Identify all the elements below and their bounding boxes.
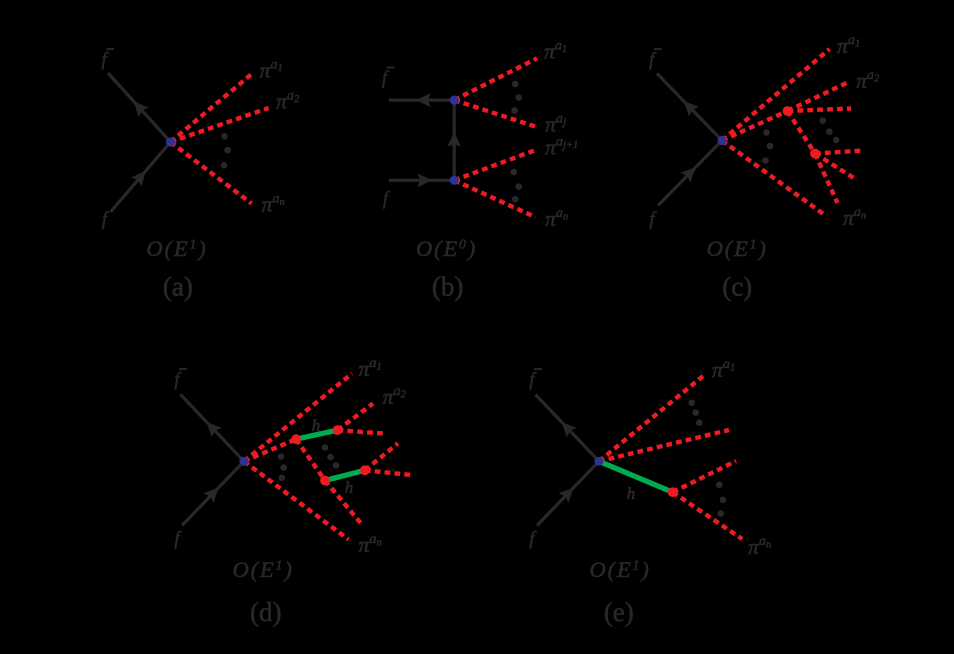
pion line pi_a2 from red vertex 1 (c): [788, 82, 849, 111]
pion line pi_a1 (a): [171, 73, 254, 143]
red vertex C (d): [320, 476, 330, 486]
red vertex A (d): [291, 434, 301, 444]
label fbar (b): [382, 68, 394, 90]
svg-text:(c): (c): [722, 272, 752, 302]
pion line pi_a2 (a): [171, 108, 269, 142]
svg-text:O(E1): O(E1): [146, 236, 207, 261]
pion line pi_an (d): [244, 461, 349, 539]
pion line pi_a1 (b): [454, 58, 537, 100]
higgs line h lower (d): [325, 470, 365, 480]
pion line pi_aj+1 (b): [454, 150, 536, 181]
label f (a): [102, 210, 110, 230]
pion line pi_an (a): [171, 142, 252, 204]
arrow on f line (d): [204, 483, 224, 503]
vertex V (c): [717, 136, 726, 145]
wire antifermion fbar (a): [108, 73, 171, 142]
internal pion to red vertex A (d): [244, 439, 296, 461]
ellipsis dots near vertex (c): [762, 129, 773, 164]
internal pion line to red vertex 1 (c): [722, 111, 788, 141]
pion line pi_a1 (e): [599, 374, 706, 461]
ellipsis dots middle (d): [322, 444, 340, 469]
pion line upright from red vertex D (d): [365, 443, 398, 470]
ellipsis dots (a): [221, 133, 231, 169]
label fbar (a): [102, 49, 114, 71]
vertex V (e): [594, 457, 603, 466]
red vertex 2 (c): [810, 149, 820, 159]
pion line down from red vertex 2 (c): [815, 154, 838, 204]
internal pion A to C (d): [296, 439, 325, 480]
arrow on fbar line (d): [202, 417, 222, 437]
svg-text:O(E1): O(E1): [232, 557, 293, 582]
arrow on fbar line (b): [416, 93, 431, 107]
wire fermion f (c): [658, 141, 722, 206]
svg-text:(e): (e): [604, 597, 634, 627]
red vertex D (d): [360, 465, 370, 475]
pion line right from red vertex 1 (c): [788, 109, 852, 112]
svg-text:O(E1): O(E1): [707, 236, 768, 261]
wire fermion f (d): [182, 461, 244, 525]
svg-text:h: h: [312, 416, 321, 435]
pion line pi_an (e): [673, 492, 743, 539]
pion line downright from red vertex C (d): [325, 481, 361, 524]
pion line right from red vertex D (d): [365, 470, 412, 475]
arrow on fbar line (a): [129, 97, 149, 117]
wire fermion f (a): [111, 142, 171, 212]
svg-text:h: h: [627, 484, 636, 503]
wire internal fermion (b): [453, 100, 456, 180]
svg-text:h: h: [345, 478, 354, 497]
pion line upright from red vertex (e): [673, 461, 736, 492]
pion line pi_a1 (d): [244, 374, 352, 462]
wire antifermion fbar (b): [389, 98, 454, 101]
arrow on fbar line (e): [557, 417, 577, 437]
wire fermion f (e): [537, 461, 599, 525]
label f (b): [383, 190, 391, 210]
ellipsis dots right (c): [819, 117, 839, 143]
arrow on f line (b): [418, 173, 433, 187]
wire antifermion fbar (e): [536, 395, 600, 462]
vertex top (b): [450, 96, 459, 105]
pion line downright from red vertex 2 (c): [815, 154, 857, 181]
arrow on internal fermion (b): [447, 132, 461, 147]
pion line right from red vertex 2 (c): [815, 151, 865, 154]
pion line pi_aj (b): [454, 100, 535, 127]
svg-text:(b): (b): [432, 272, 463, 302]
red vertex 1 (c): [783, 106, 793, 116]
ellipsis dots top (b): [511, 81, 522, 114]
pion line pi_an (b): [454, 180, 535, 217]
arrow on f line (a): [131, 166, 151, 186]
label f (e): [529, 530, 537, 550]
svg-text:(d): (d): [250, 597, 281, 627]
arrow on fbar line (c): [679, 96, 699, 116]
internal pion line to red vertex 2 (c): [788, 111, 816, 154]
label fbar (e): [529, 369, 541, 391]
wire antifermion fbar (c): [657, 74, 722, 141]
wire antifermion fbar (d): [181, 395, 245, 462]
pion line pi_an (c): [722, 141, 826, 216]
pion line pi_a2 from red vertex B (d): [338, 404, 374, 431]
pion line second (e): [599, 430, 729, 461]
pion line pi_a1 (c): [722, 49, 830, 141]
red vertex B (d): [333, 425, 343, 435]
higgs line h upper (d): [296, 430, 338, 439]
ellipsis dots top (e): [688, 400, 702, 427]
arrow on f line (c): [681, 162, 701, 182]
ellipsis dots bottom (e): [716, 482, 726, 517]
vertex V1 (a): [166, 137, 175, 146]
ellipsis dots near vertex (d): [278, 453, 287, 481]
svg-text:O(E1): O(E1): [589, 557, 650, 582]
label f (d): [174, 530, 182, 550]
ellipsis dots bottom (b): [511, 169, 523, 203]
vertex V (d): [239, 457, 248, 466]
higgs line h (e): [599, 461, 673, 492]
red vertex (e): [668, 487, 678, 497]
pion line right from red vertex B (d): [338, 430, 384, 433]
label f (c): [649, 210, 657, 230]
vertex bottom (b): [450, 176, 459, 185]
svg-text:(a): (a): [163, 272, 193, 302]
label fbar (d): [174, 369, 186, 391]
arrow on f line (e): [559, 483, 579, 503]
svg-text:O(E0): O(E0): [416, 236, 477, 261]
wire fermion f (b): [389, 179, 454, 182]
label fbar (c): [649, 49, 661, 71]
